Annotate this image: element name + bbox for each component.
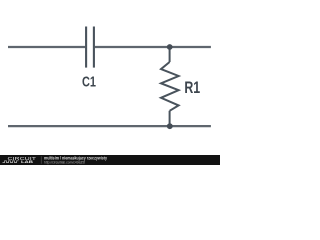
svg-text:C1: C1: [82, 74, 96, 91]
svg-text:R1: R1: [184, 79, 200, 97]
svg-text:LAB: LAB: [21, 159, 33, 164]
svg-text:http://circuitlab.com/c49a35t: http://circuitlab.com/c49a35t: [44, 160, 85, 164]
